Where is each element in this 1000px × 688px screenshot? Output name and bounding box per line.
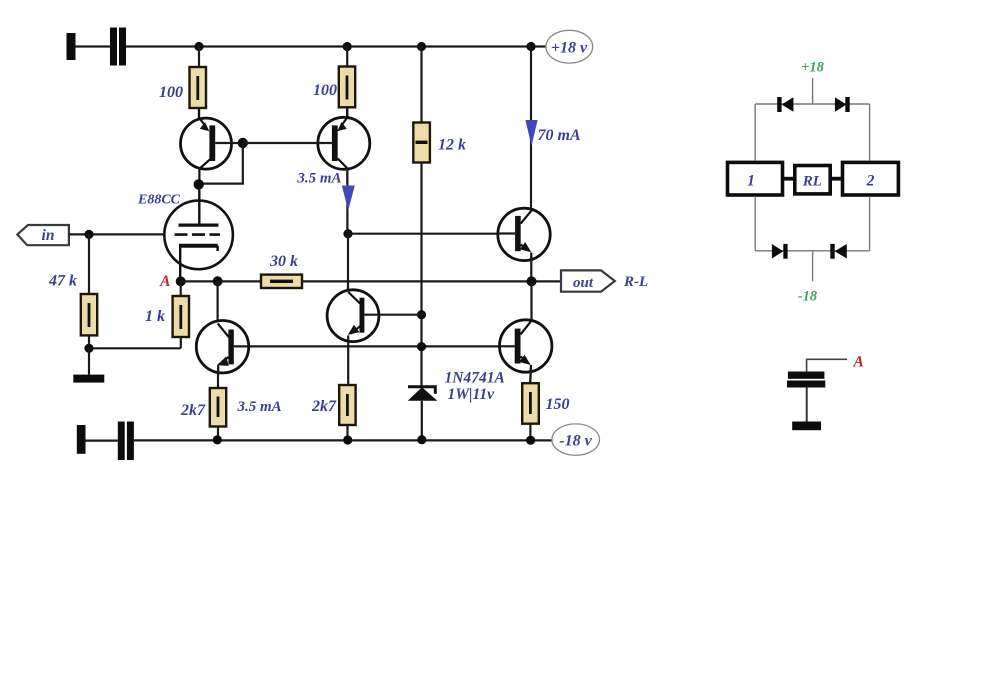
wire Q6 emitter <box>529 369 532 384</box>
wire <box>529 424 531 441</box>
connector box1-RL <box>783 177 795 181</box>
svg-text:out: out <box>573 275 594 291</box>
wire +18 to Q5 collector <box>530 47 532 213</box>
svg-text:-18: -18 <box>798 289 818 305</box>
ground (bypass) <box>792 422 821 431</box>
bypass capacitor plate <box>787 381 825 388</box>
wire base-collector tie <box>199 143 243 184</box>
svg-text:100: 100 <box>159 84 183 101</box>
wire bridge right lower <box>869 196 871 251</box>
wire VAS collector <box>347 234 349 293</box>
svg-text:2: 2 <box>866 173 875 190</box>
resistor 100 (left) <box>190 67 207 108</box>
svg-text:3.5 mA: 3.5 mA <box>296 171 341 187</box>
svg-text:1 k: 1 k <box>145 308 165 325</box>
svg-text:1: 1 <box>747 173 755 190</box>
node on rail <box>343 435 352 444</box>
node out <box>527 276 537 286</box>
node on rail <box>194 42 203 51</box>
node driver line <box>417 342 426 351</box>
svg-text:A: A <box>159 273 170 290</box>
resistor 1k <box>173 296 189 337</box>
+18 v supply terminal <box>546 30 593 63</box>
current arrow 70 mA <box>525 120 537 146</box>
svg-text:1N4741A: 1N4741A <box>445 370 505 387</box>
transistor Q3 (left NPN) <box>196 321 248 373</box>
wire +18 stem <box>812 78 814 104</box>
capacitor bottom-left <box>118 422 134 461</box>
resistor 12k <box>413 123 430 163</box>
node input <box>84 230 93 239</box>
wire Q1 base <box>215 142 243 144</box>
wire 1k top <box>180 281 182 296</box>
svg-text:47 k: 47 k <box>48 273 77 290</box>
input terminal in <box>17 225 69 245</box>
svg-text:E88CC: E88CC <box>137 193 181 208</box>
battery plate top-left <box>67 33 76 60</box>
transistor Q5 (upper output NPN) <box>498 208 551 260</box>
wire Q5 emitter to out node <box>530 257 532 282</box>
wire bridge right <box>869 104 871 160</box>
capacitor top-left <box>110 28 126 66</box>
svg-text:2k7: 2k7 <box>311 398 337 415</box>
box channel 2 <box>843 162 899 195</box>
svg-text:100: 100 <box>313 82 337 99</box>
tube V1 E88CC triode <box>164 184 233 281</box>
output terminal out <box>561 270 615 291</box>
node on rail <box>526 436 535 445</box>
wire -18 stem <box>812 251 814 281</box>
wire <box>217 427 219 441</box>
wire Q3 emitter <box>217 372 219 389</box>
wire zener to rail <box>421 401 423 441</box>
svg-text:3.5 mA: 3.5 mA <box>237 399 282 415</box>
transistor Q1 (PNP current mirror, diode-connected) <box>181 108 232 184</box>
svg-text:+18 v: +18 v <box>551 40 588 57</box>
resistor 2k7 (left) <box>210 388 226 427</box>
wire out node to Q6 collector <box>530 281 532 322</box>
node Q1 collector <box>194 179 204 189</box>
svg-text:-18 v: -18 v <box>559 432 592 449</box>
wire Q3 collector up <box>217 281 219 324</box>
diode bottom-right <box>830 244 847 259</box>
wire +18 rail <box>126 45 546 47</box>
wire Q3 base to Q6 base <box>234 345 515 347</box>
wire 12k bottom to zener <box>420 163 422 387</box>
wire Q2 base <box>243 142 332 144</box>
transistor Q2 (PNP mirror output) <box>318 107 370 184</box>
node on rail <box>343 42 352 51</box>
current arrow 3.5 mA <box>342 186 355 211</box>
wire 12k top <box>420 47 422 123</box>
node Q1 base junction <box>238 138 248 148</box>
wire bridge bottom <box>755 250 869 252</box>
svg-text:150: 150 <box>546 396 570 413</box>
svg-text:1W|11v: 1W|11v <box>448 386 496 403</box>
wire node A across <box>181 280 261 282</box>
wire Q4 emitter <box>347 336 349 386</box>
wire <box>88 335 90 348</box>
node Q2 collector / VAS collector <box>343 229 352 238</box>
wire 1k bottom <box>180 337 182 348</box>
wire bridge left <box>754 104 756 160</box>
-18 v supply terminal <box>552 424 600 455</box>
wire node A to bypass cap <box>807 359 848 371</box>
diode bottom-left <box>772 244 788 259</box>
svg-text:12 k: 12 k <box>438 137 466 154</box>
diode top-left <box>777 97 793 112</box>
node A <box>176 276 186 286</box>
wire <box>86 440 118 442</box>
node on rail <box>526 42 535 51</box>
battery plate bottom-left <box>77 425 86 454</box>
node 47k bottom <box>84 344 93 353</box>
wire to 1k bottom <box>89 347 181 349</box>
node on rail <box>417 42 426 51</box>
wire in to grid <box>69 233 165 235</box>
resistor 30k feedback <box>261 275 302 288</box>
wire cap to ground <box>806 388 808 422</box>
wire Q4 base <box>364 314 421 316</box>
wire to ground <box>88 348 90 374</box>
diode top-right <box>835 97 850 112</box>
wire <box>346 107 348 119</box>
transistor Q4 (VAS NPN) <box>327 290 379 342</box>
connector RL-box2 <box>830 177 842 181</box>
box channel 1 <box>728 162 783 195</box>
svg-text:30 k: 30 k <box>269 253 298 270</box>
wire <box>198 108 200 120</box>
wire Q2 collector down <box>346 169 348 234</box>
node VAS base <box>417 310 426 319</box>
svg-text:in: in <box>42 227 55 244</box>
wire Q5 base <box>348 233 515 235</box>
box RL load <box>795 166 830 194</box>
resistor 100 (right) <box>339 67 355 108</box>
transistor Q6 (lower output NPN) <box>500 320 552 383</box>
wire <box>76 45 111 47</box>
node on rail <box>213 435 222 444</box>
svg-text:R-L: R-L <box>623 274 648 290</box>
ground <box>73 375 104 383</box>
resistor 47k <box>81 294 97 335</box>
wire rail to R2 <box>346 47 348 67</box>
wire rail to R1 <box>198 47 200 68</box>
wire <box>346 425 348 440</box>
wire <box>88 234 90 294</box>
node on rail <box>417 435 426 444</box>
resistor 2k7 (middle) <box>339 385 355 425</box>
svg-text:A: A <box>853 354 864 371</box>
wire -18 rail <box>134 439 552 441</box>
svg-text:70 mA: 70 mA <box>538 127 581 144</box>
svg-text:2k7: 2k7 <box>180 402 206 419</box>
wire bridge top <box>755 103 869 105</box>
wire bridge left lower <box>754 196 756 251</box>
svg-text:RL: RL <box>802 174 822 190</box>
node <box>213 276 223 286</box>
svg-text:+18: +18 <box>801 60 825 76</box>
bypass capacitor plate <box>788 372 825 379</box>
wire 30k to out node <box>302 280 561 282</box>
zener diode 1N4741A <box>408 387 438 401</box>
resistor 150 <box>522 383 539 424</box>
